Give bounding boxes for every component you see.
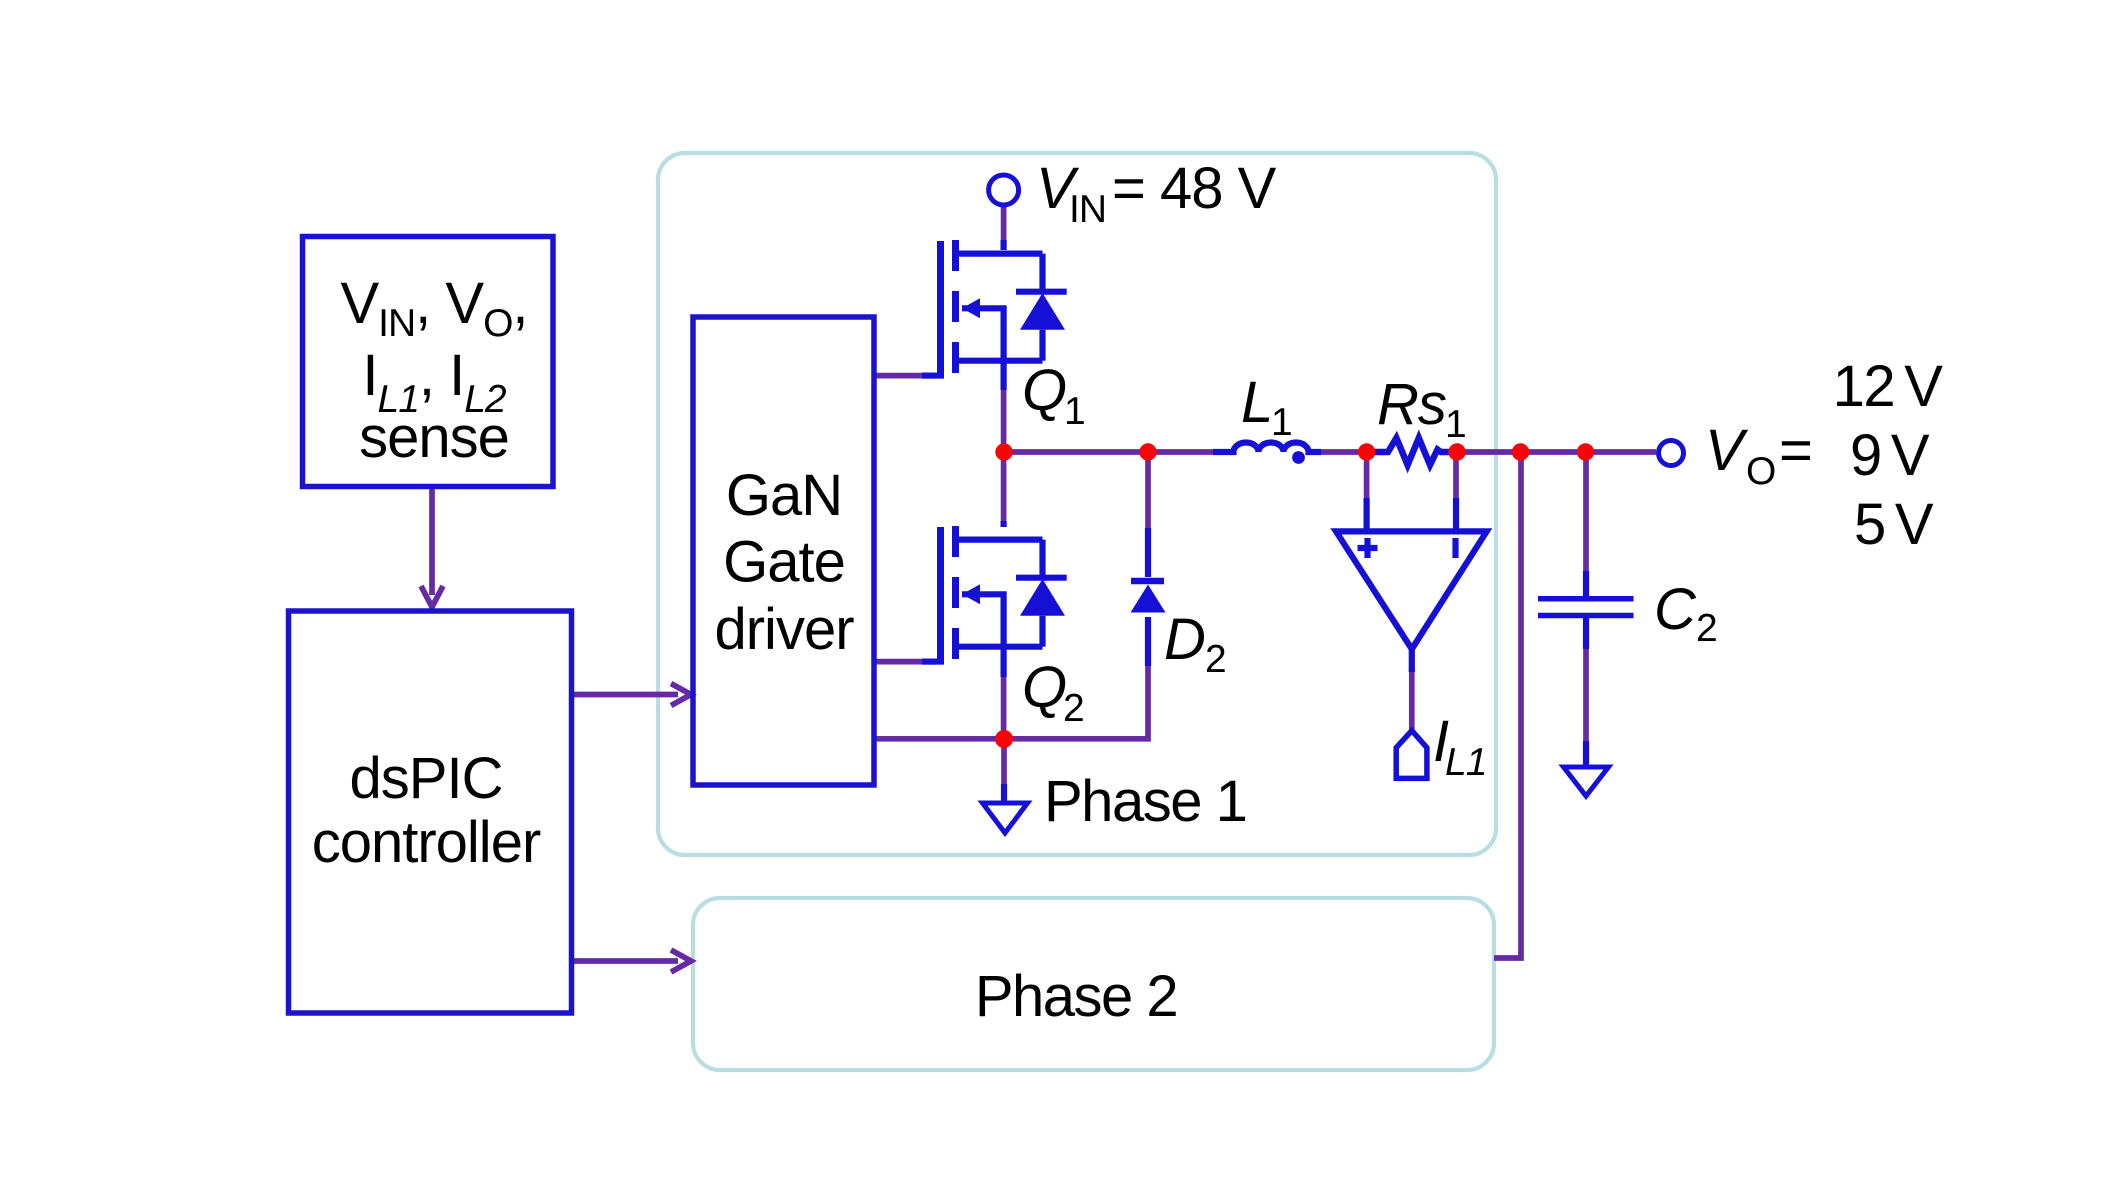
svg-text:1: 1: [1445, 403, 1466, 446]
svg-text:L1: L1: [1445, 741, 1486, 784]
svg-text:5 V: 5 V: [1854, 492, 1934, 557]
svg-text:2: 2: [1696, 607, 1717, 650]
svg-text:IN: IN: [1069, 188, 1106, 231]
svg-text:Rs: Rs: [1377, 372, 1446, 437]
svg-text:2: 2: [1205, 638, 1226, 681]
svg-text:=: =: [1779, 418, 1812, 483]
svg-text:Q: Q: [1022, 358, 1066, 423]
svg-text:9 V: 9 V: [1850, 423, 1930, 488]
svg-text:O: O: [1746, 450, 1775, 493]
svg-text:D: D: [1164, 607, 1205, 672]
svg-text:1: 1: [1064, 390, 1085, 433]
svg-text:2: 2: [1063, 687, 1084, 730]
svg-text:Phase 1: Phase 1: [1044, 769, 1246, 834]
svg-text:dsPIC: dsPIC: [350, 746, 503, 811]
svg-text:Q: Q: [1022, 655, 1066, 720]
svg-text:sense: sense: [359, 405, 509, 470]
svg-text:L: L: [1241, 370, 1272, 435]
svg-text:= 48 V: = 48 V: [1112, 156, 1277, 221]
svg-text:C: C: [1654, 577, 1697, 642]
svg-text:Phase 2: Phase 2: [975, 964, 1177, 1029]
svg-text:V: V: [1705, 418, 1749, 483]
svg-text:GaN: GaN: [726, 463, 842, 528]
svg-text:controller: controller: [312, 810, 541, 875]
svg-text:driver: driver: [714, 597, 854, 662]
svg-text:1: 1: [1271, 401, 1292, 444]
svg-text:12 V: 12 V: [1833, 354, 1944, 419]
svg-text:Gate: Gate: [723, 530, 845, 595]
